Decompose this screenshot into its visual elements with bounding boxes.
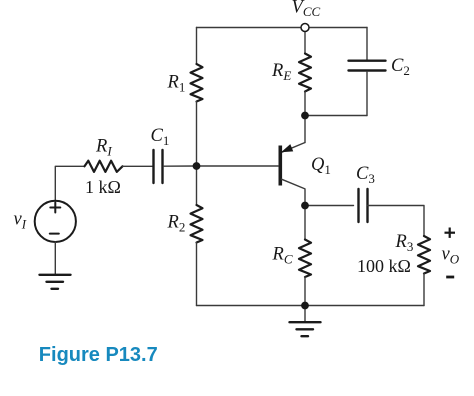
wire ground stub <box>304 306 306 322</box>
wire emitter node to C2 bottom <box>305 115 367 117</box>
wire vI bottom <box>54 242 56 275</box>
svg-text:vI: vI <box>14 210 27 232</box>
transistor Q1 emitter lead <box>282 143 306 153</box>
capacitor C1 <box>154 150 163 183</box>
node base junction <box>193 162 201 170</box>
transistor Q1 emitter arrow <box>283 145 293 152</box>
svg-text:RE: RE <box>271 61 291 83</box>
svg-text:R3: R3 <box>395 232 414 254</box>
svg-text:R1: R1 <box>167 73 186 95</box>
svg-text:Figure P13.7: Figure P13.7 <box>39 344 158 366</box>
svg-text:RC: RC <box>272 245 293 267</box>
wire collector node to RC <box>304 206 306 240</box>
vI plus sign <box>50 203 60 213</box>
resistor R2 <box>191 205 203 243</box>
ground (main) <box>290 322 321 336</box>
svg-text:vO: vO <box>442 245 460 267</box>
node collector junction <box>301 202 309 210</box>
svg-text:C2: C2 <box>391 56 410 78</box>
transistor Q1 base bar <box>278 146 282 186</box>
wire RE bottom to emitter node <box>304 92 306 116</box>
wire emitter stub <box>304 116 306 143</box>
svg-text:100 kΩ: 100 kΩ <box>357 256 411 276</box>
svg-text:R2: R2 <box>167 213 186 235</box>
wire C1 to base node <box>164 165 197 167</box>
wire left vertical top (rail to R1) <box>196 28 198 65</box>
wire VCC stub to RE <box>304 32 306 54</box>
vI minus sign <box>50 233 59 235</box>
wire collector node to C3 <box>305 205 354 207</box>
transistor Q1 collector lead <box>282 179 306 205</box>
wire R3 bottom to rail <box>423 274 425 306</box>
wire base node down to R2 <box>196 166 198 205</box>
svg-text:Q1: Q1 <box>311 155 331 177</box>
svg-text:1 kΩ: 1 kΩ <box>85 177 121 197</box>
resistor R3 <box>418 236 430 274</box>
wire C3 to R3 corner <box>368 206 425 237</box>
node emitter junction <box>301 112 309 120</box>
wire base lead <box>197 165 279 167</box>
resistor R1 <box>191 64 203 102</box>
resistor RE <box>299 54 311 92</box>
wire bottom rail <box>197 305 425 307</box>
resistor RC <box>299 240 311 278</box>
resistor RI <box>85 161 123 172</box>
source vI <box>35 201 76 242</box>
ground (vI) <box>40 275 71 289</box>
wire vI top <box>55 166 84 200</box>
wire C2 top branch <box>366 28 368 60</box>
node VCC terminal circle <box>301 24 309 32</box>
svg-text:C1: C1 <box>151 126 170 148</box>
capacitor C3 <box>359 189 368 222</box>
wire top rail <box>197 27 368 29</box>
svg-text:C3: C3 <box>356 164 375 186</box>
wire R2 bottom to bottom rail <box>196 243 198 306</box>
wire C2 bottom branch <box>366 72 368 116</box>
label vO minus <box>446 276 454 279</box>
wire RC bottom to rail node <box>304 277 306 306</box>
svg-text:RI: RI <box>95 137 112 159</box>
node ground junction <box>301 302 309 310</box>
wire RI to C1 <box>123 165 153 167</box>
svg-text:VCC: VCC <box>292 0 321 19</box>
capacitor C2 <box>349 61 386 71</box>
wire R1 bottom to base node <box>196 102 198 167</box>
label vO plus <box>445 228 456 238</box>
